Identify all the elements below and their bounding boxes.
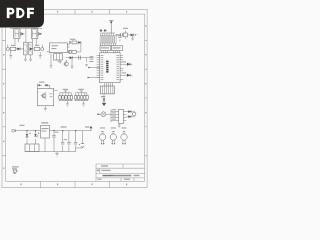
diode D16: [44, 84, 50, 89]
connector J5: [25, 144, 39, 152]
diode D1: [21, 32, 24, 36]
capacitor C6: [74, 131, 77, 152]
connector J3: [100, 86, 114, 94]
label RN1: [100, 46, 111, 53]
label: [39, 82, 45, 83]
wire: [26, 130, 76, 131]
relay K3: [54, 54, 63, 60]
label: [29, 132, 39, 134]
relay K1: [14, 29, 20, 46]
diode D11: [131, 34, 138, 37]
LED D15: [37, 84, 42, 89]
LED D18: [34, 131, 38, 144]
resistor network RN1: [100, 36, 108, 46]
capacitor C9: [69, 41, 71, 44]
capacitor C2: [121, 33, 124, 37]
capacitor C3: [52, 131, 58, 152]
ground: [131, 35, 134, 41]
diode D7: [120, 63, 132, 66]
ground: [55, 152, 59, 156]
PDF badge: [0, 0, 44, 28]
diode D14: [127, 115, 134, 118]
label: [31, 25, 37, 26]
resistor R1: [10, 47, 16, 50]
diode D13: [127, 110, 134, 113]
label: [78, 89, 84, 90]
diode D19: [78, 41, 81, 52]
wire: [116, 34, 119, 36]
motor M1: [97, 112, 111, 117]
capacitor C4: [61, 131, 67, 152]
resistor R2: [34, 47, 40, 50]
ground: [50, 53, 53, 69]
battery BT1: [12, 166, 19, 173]
label: [20, 125, 25, 126]
diode D12: [103, 94, 106, 103]
wire: [88, 77, 100, 78]
AC source J2: [40, 45, 44, 51]
transistor Q2: [41, 92, 53, 100]
label: [101, 96, 105, 97]
crystal Y1: [123, 31, 130, 39]
label: [85, 126, 90, 127]
ground: [66, 101, 69, 107]
label: [90, 59, 94, 60]
wire: [54, 89, 58, 91]
AC source J1: [6, 45, 10, 51]
diode D8: [120, 74, 132, 77]
resistor network RN2: [109, 36, 117, 46]
label: [121, 72, 126, 73]
label RN2: [112, 46, 123, 53]
ground: [82, 101, 85, 107]
transistor Q3: [132, 111, 136, 118]
ground: [59, 60, 62, 64]
wire: [26, 144, 63, 152]
label: [35, 45, 40, 46]
capacitor C7: [76, 131, 85, 148]
ground: [29, 55, 32, 62]
IC U4: [47, 43, 70, 53]
label: [123, 28, 128, 29]
label: [90, 61, 94, 62]
ground: [118, 124, 121, 128]
diode D9: [100, 29, 103, 32]
optocoupler U3: [29, 42, 32, 55]
ground: [24, 55, 27, 62]
buzzer LS1: [99, 127, 105, 144]
label: [70, 39, 76, 40]
ground: [39, 52, 42, 58]
ground: [71, 59, 74, 68]
transistor Q1: [68, 50, 72, 54]
resistor R3: [72, 41, 77, 44]
transistor Q2: [58, 60, 68, 66]
resistor R5: [72, 50, 81, 53]
diode D3: [16, 47, 24, 50]
capacitor C8: [79, 56, 81, 60]
wire: [120, 55, 123, 79]
capacitor C5: [67, 131, 70, 152]
connector J4: [12, 129, 16, 132]
wire: [101, 33, 115, 36]
buzzer LS2: [110, 127, 116, 144]
wire: [97, 55, 100, 77]
IC U5: [111, 109, 127, 123]
switch SW2: [75, 91, 89, 101]
diode D4: [30, 47, 34, 50]
power arrow: [102, 103, 106, 106]
label: [14, 25, 20, 26]
diode D10: [104, 29, 107, 32]
diode D2: [39, 32, 42, 36]
ground: [85, 64, 88, 66]
optocoupler U2: [24, 42, 27, 55]
relay K2: [32, 29, 38, 46]
wire: [88, 67, 99, 68]
wire: [66, 58, 94, 63]
IC U6: [37, 89, 53, 106]
ground: [9, 51, 12, 59]
switch SW1: [59, 91, 73, 101]
wire: [26, 148, 76, 152]
capacitor C1: [118, 34, 121, 42]
label: [63, 89, 69, 90]
inductor L1: [61, 126, 67, 127]
buzzer LS3: [121, 127, 127, 144]
label: [11, 45, 16, 46]
wire: [10, 28, 42, 42]
label: [121, 61, 126, 62]
title block: [96, 164, 145, 181]
wire: [16, 130, 91, 132]
IC U1 AT89C52: [100, 53, 121, 83]
power VCC: [109, 21, 113, 33]
regulator U7: [41, 122, 50, 152]
sheet frame: [2, 9, 147, 187]
ground: [44, 106, 47, 111]
power VCC: [90, 126, 93, 131]
diode D5: [70, 56, 73, 59]
label: [90, 56, 94, 57]
diode D17: [26, 131, 29, 144]
wire: [105, 83, 113, 86]
